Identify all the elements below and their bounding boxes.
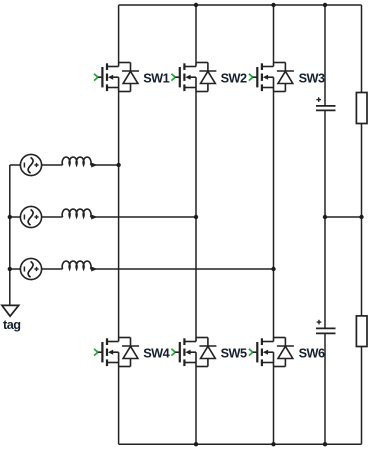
AC source V3 xyxy=(20,258,41,279)
wire leg2 upper xyxy=(195,5,197,63)
svg-text:tag: tag xyxy=(3,318,21,332)
node top bus / cap leg xyxy=(323,3,327,7)
node bottom bus / cap leg xyxy=(323,442,327,446)
wire top DC bus xyxy=(119,4,362,6)
node rung / cap leg xyxy=(323,215,327,219)
node top bus / leg2 xyxy=(194,3,198,7)
wire phase C source-to-coil xyxy=(42,268,63,270)
transistor SW2 xyxy=(171,62,216,91)
node bottom bus / leg2 xyxy=(194,442,198,446)
svg-text:SW2: SW2 xyxy=(221,72,247,86)
AC source V2 xyxy=(20,206,41,227)
wire resistor leg middle xyxy=(361,124,363,316)
transistor SW6 xyxy=(249,338,294,367)
resistor R2 xyxy=(356,316,367,347)
wire capacitor leg lower xyxy=(324,334,326,444)
wire phase A coil-to-leg1 xyxy=(91,164,119,166)
node left bus / phase C xyxy=(8,267,12,271)
wire mid rung xyxy=(325,216,362,218)
inductor L1 xyxy=(62,157,97,167)
wire capacitor leg middle xyxy=(324,111,326,328)
wire leg1 lower xyxy=(118,367,120,445)
wire leg3 lower xyxy=(273,367,275,445)
ground tag xyxy=(2,305,21,332)
wire bottom DC bus xyxy=(119,443,362,445)
wire leg3 middle xyxy=(273,92,275,338)
wire leg1 upper xyxy=(118,5,120,63)
transistor SW4 xyxy=(94,338,139,367)
node phase A / leg1 xyxy=(116,163,120,167)
svg-text:SW5: SW5 xyxy=(221,347,247,361)
transistor SW5 xyxy=(171,338,216,367)
node top bus / leg3 xyxy=(271,3,275,7)
wire leg1 middle xyxy=(118,92,120,338)
capacitor C2 xyxy=(316,320,336,334)
wire phase C coil-to-leg3 xyxy=(91,268,274,270)
AC source V1 xyxy=(20,154,41,175)
wire capacitor leg upper xyxy=(324,5,326,105)
node phase C / leg3 xyxy=(271,267,275,271)
node rung / res leg xyxy=(359,215,363,219)
node bottom bus / leg3 xyxy=(271,442,275,446)
wire resistor leg lower xyxy=(361,347,363,445)
inductor L3 xyxy=(62,261,97,271)
wire leg2 middle xyxy=(195,92,197,338)
svg-text:SW1: SW1 xyxy=(143,72,169,86)
wire phase A source-to-coil xyxy=(42,164,63,166)
node left bus / phase B xyxy=(8,215,12,219)
wire phase C left lead xyxy=(10,268,21,270)
transistor SW3 xyxy=(249,62,294,91)
transistor SW1 xyxy=(94,62,139,91)
wire leg3 upper xyxy=(273,5,275,63)
svg-text:SW4: SW4 xyxy=(143,347,169,361)
wire phase B source-to-coil xyxy=(42,216,63,218)
capacitor C1 xyxy=(316,97,336,110)
inductor L2 xyxy=(62,209,97,219)
svg-text:SW3: SW3 xyxy=(299,72,325,86)
wire phase A left lead xyxy=(10,164,21,166)
wire resistor leg upper xyxy=(361,5,363,93)
wire leg2 lower xyxy=(195,367,197,445)
wire phase B left lead xyxy=(10,216,21,218)
wire neutral left bus xyxy=(9,165,11,305)
svg-text:SW6: SW6 xyxy=(299,347,325,361)
resistor R1 xyxy=(356,93,367,124)
node phase B / leg2 xyxy=(194,215,198,219)
wire phase B coil-to-leg2 xyxy=(91,216,196,218)
